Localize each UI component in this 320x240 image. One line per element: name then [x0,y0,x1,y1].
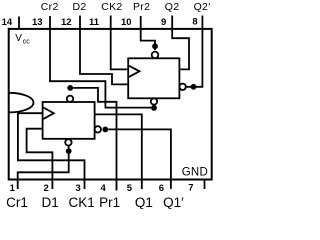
flip-flop U2 box [128,58,179,98]
pin 7 number [188,183,193,194]
GND label [182,166,208,178]
svg-text:Q2: Q2 [165,1,180,13]
wire Cr1: pin 1 to U1 clear [18,146,69,189]
label Pr1 [99,195,120,210]
svg-text:Q1′: Q1′ [163,195,184,209]
svg-text:Q1: Q1 [135,195,153,209]
svg-text:9: 9 [161,17,166,28]
svg-text:2: 2 [44,183,49,194]
pin 14 Vcc tick [18,17,20,30]
label Q1' [163,195,184,210]
label CK2 [101,1,122,13]
label Pr2 [133,1,150,13]
U2 clear bubble [151,98,157,104]
pin 9 number [161,17,166,28]
pin 8 number [192,17,197,28]
junction dot at U1 preset [67,85,73,91]
U2 complement output bubble [179,84,185,90]
Vcc label [15,33,30,46]
svg-text:12: 12 [61,17,72,28]
pin 14 number [2,17,13,28]
svg-text:cc: cc [23,39,31,46]
label D2 [73,1,87,13]
pin 13 number [32,17,43,28]
wire Q1': U1 Q' output to pin 6 [108,129,171,189]
junction dot at U1 Q' [102,126,108,132]
svg-text:Q2′: Q2′ [194,1,211,13]
U1 complement output bubble [95,126,101,132]
wire Pr2: pin 10 to U2 preset [141,16,155,50]
U1 preset bubble [67,96,73,102]
svg-text:7: 7 [188,183,193,194]
svg-text:Cr1: Cr1 [6,195,28,209]
svg-text:1: 1 [10,183,16,194]
label Q2' [194,1,211,13]
svg-text:Pr1: Pr1 [99,195,120,209]
svg-text:14: 14 [2,17,13,28]
label Q2 [165,1,180,13]
svg-text:GND: GND [182,166,208,178]
U1 clear bubble [65,139,71,145]
svg-text:10: 10 [121,17,132,28]
junction dot at U2 preset [152,43,158,49]
pin 11 number [89,17,100,28]
svg-text:5: 5 [127,183,133,194]
pin 10 number [121,17,132,28]
junction dot at U2 Q' [191,84,197,90]
pin 6 number [159,183,164,194]
wire D1: pin 2 to U1 D input [27,129,53,189]
U2 preset bubble [152,52,159,59]
svg-text:4: 4 [101,183,107,194]
wire CK2: pin 11 to U2 clock [111,16,129,70]
flip-flop U1 box [43,102,95,139]
pin 7 GND tick [204,179,206,190]
pin 3 number [76,183,81,194]
wire Q2': U2 Q' output to pin 8 [186,16,203,87]
svg-text:3: 3 [76,183,81,194]
pin 1 number [10,183,16,194]
svg-text:6: 6 [159,183,164,194]
svg-text:D2: D2 [73,1,87,13]
U2 clock edge triangle [129,66,139,77]
label Cr1 [6,195,28,210]
wire Cr2: pin 13 to U2 clear [50,16,154,108]
svg-text:Cr2: Cr2 [41,1,59,13]
pin 4 number [101,183,107,194]
wire D2: pin 12 to U2 D input [80,16,128,85]
svg-text:D1: D1 [42,195,59,209]
svg-text:13: 13 [32,17,43,28]
label D1 [42,195,59,210]
label Q1 [135,195,153,210]
wire Q2: U2 Q output to pin 9 [172,16,189,70]
svg-text:CK1: CK1 [69,195,95,209]
wire Pr1: U1 preset to pin 4 [73,88,116,191]
wire Q1: U1 Q output to pin 5 [95,114,142,189]
wire CK1: pin 3 to U1 clock [18,113,85,189]
svg-text:8: 8 [192,17,197,28]
pin 12 number [61,17,72,28]
svg-text:Pr2: Pr2 [133,1,150,13]
svg-text:11: 11 [89,17,100,28]
svg-text:CK2: CK2 [101,1,122,13]
svg-text:V: V [15,33,22,44]
IC package outline U1 (7474) [9,29,212,180]
junction dot at U1 clear [66,148,72,154]
pin 5 number [127,183,133,194]
U1 clock edge triangle [43,108,53,119]
junction dot at U2 clear [151,105,157,111]
label Cr2 [41,1,59,13]
label CK1 [69,195,95,210]
package notch (pin-1 orientation mark) [9,93,33,113]
pin 2 number [44,183,49,194]
